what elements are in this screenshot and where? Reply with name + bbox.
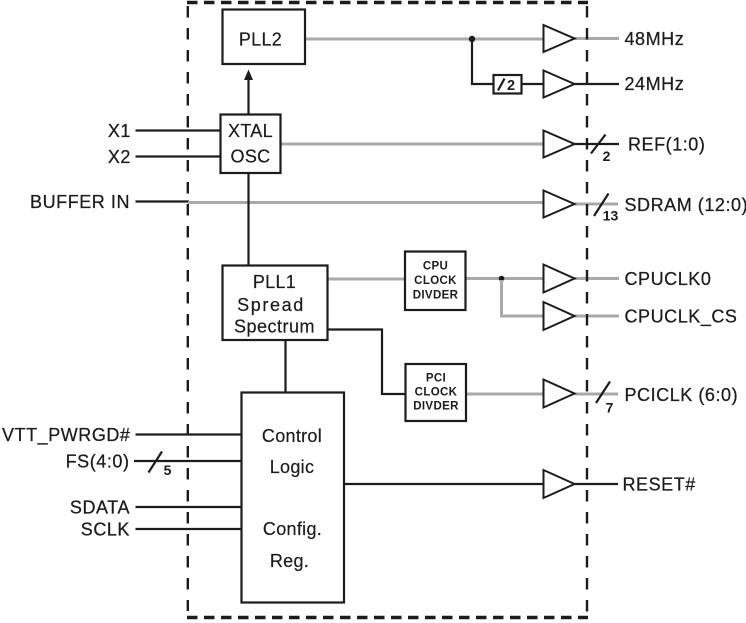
svg-text:Spectrum: Spectrum xyxy=(234,317,315,337)
svg-text:REF(1:0): REF(1:0) xyxy=(628,135,705,155)
slash bus width REF /2 xyxy=(591,135,611,165)
svg-text:2: 2 xyxy=(603,148,611,164)
svg-text:CLOCK: CLOCK xyxy=(414,275,457,287)
svg-text:RESET#: RESET# xyxy=(623,475,696,495)
svg-text:Control: Control xyxy=(262,426,322,446)
svg-text:X2: X2 xyxy=(108,147,131,167)
svg-text:SCLK: SCLK xyxy=(81,520,130,540)
wire X1 input xyxy=(136,129,221,131)
slash bus width FS /5 xyxy=(149,452,172,479)
wire VTT_PWRGD# input xyxy=(136,433,242,435)
wire CPU clock divider to CPUCLK0 buffer xyxy=(466,277,544,280)
buffer CPUCLK_CS xyxy=(544,302,575,330)
wire 24MHz buffer output stub xyxy=(575,83,620,85)
wire RESET# buffer output stub xyxy=(575,483,619,485)
svg-text:SDRAM (12:0): SDRAM (12:0) xyxy=(625,195,746,215)
buffer SDRAM xyxy=(544,191,575,218)
buffer 24MHz xyxy=(544,71,575,98)
wire junction down to /2 divider xyxy=(472,41,493,84)
wire CPUCLK_CS buffer output stub xyxy=(575,315,620,318)
wire 48MHz buffer output stub xyxy=(575,37,620,40)
svg-text:CPUCLK0: CPUCLK0 xyxy=(625,269,712,289)
wire PLL1 to PCI clock divider xyxy=(328,330,406,395)
wire SDATA input xyxy=(136,506,242,508)
wire FS(4:0) input xyxy=(134,460,242,462)
svg-text:Spread: Spread xyxy=(237,295,305,315)
node junction on 48MHz line xyxy=(469,36,475,42)
buffer RESET# xyxy=(544,470,575,498)
svg-text:DIVDER: DIVDER xyxy=(413,401,459,413)
wire PLL1 to CPU clock divider xyxy=(328,278,406,281)
chip boundary right dashed edge xyxy=(586,6,588,614)
wire SCLK input xyxy=(136,528,242,530)
svg-text:OSC: OSC xyxy=(231,147,271,167)
wire PCI clock divider to PCICLK buffer xyxy=(466,393,544,396)
svg-text:5: 5 xyxy=(164,462,172,478)
svg-text:PCI: PCI xyxy=(426,373,446,385)
svg-text:PCICLK (6:0): PCICLK (6:0) xyxy=(625,385,739,405)
buffer CPUCLK0 xyxy=(544,265,575,293)
block CPU CLOCK DIVDER xyxy=(405,252,466,311)
chip boundary left dashed edge xyxy=(187,6,189,611)
block XTAL OSC xyxy=(221,115,281,174)
buffer REF xyxy=(544,131,575,158)
wire X2 input xyxy=(136,155,221,157)
svg-text:XTAL: XTAL xyxy=(228,121,273,141)
wire PLL2 output to 48MHz buffer xyxy=(305,38,544,41)
svg-text:VTT_PWRGD#: VTT_PWRGD# xyxy=(2,425,131,446)
svg-text:Logic: Logic xyxy=(270,457,315,477)
chip boundary bottom dashed edge xyxy=(187,616,588,619)
svg-text:CPUCLK_CS: CPUCLK_CS xyxy=(625,307,738,328)
slash bus width PCICLK /7 xyxy=(596,382,614,416)
svg-text:PLL1: PLL1 xyxy=(253,272,296,292)
wire BUFFER IN to SDRAM buffer (inside chip) xyxy=(188,201,544,204)
block PLL1 Spread Spectrum xyxy=(223,266,328,341)
block PCI CLOCK DIVDER xyxy=(406,364,467,421)
svg-text:CPU: CPU xyxy=(423,261,448,273)
wire BUFFER IN input (outside chip) xyxy=(136,200,190,202)
wire junction down to CPUCLK_CS buffer xyxy=(502,280,544,316)
wire Control Logic to RESET# buffer xyxy=(344,483,544,485)
block /2 divider xyxy=(494,75,522,94)
wire REF buffer output stub xyxy=(575,143,620,145)
svg-text:BUFFER IN: BUFFER IN xyxy=(30,192,130,212)
wire CPUCLK0 buffer output stub xyxy=(575,277,620,280)
wire /2 divider to 24MHz buffer xyxy=(522,83,544,85)
wire XTAL OSC down to PLL1 xyxy=(247,173,249,266)
svg-text:Reg.: Reg. xyxy=(270,551,309,571)
svg-text:2: 2 xyxy=(507,78,515,94)
wire PLL1 down to Control Logic xyxy=(284,340,286,393)
node junction on CPUCLK line xyxy=(499,276,505,282)
svg-text:X1: X1 xyxy=(108,121,131,141)
wire XTAL OSC output to REF buffer xyxy=(281,143,544,146)
wire SDRAM buffer output stub xyxy=(575,203,619,206)
wire PCICLK buffer output stub xyxy=(575,393,619,396)
svg-text:PLL2: PLL2 xyxy=(239,30,282,50)
svg-text:48MHz: 48MHz xyxy=(625,29,685,49)
svg-text:SDATA: SDATA xyxy=(70,498,130,518)
svg-text:24MHz: 24MHz xyxy=(625,74,685,94)
buffer PCICLK xyxy=(544,380,575,408)
chip boundary top dashed edge xyxy=(187,1,588,4)
svg-text:13: 13 xyxy=(603,208,619,224)
svg-text:7: 7 xyxy=(606,400,614,416)
block PLL2 xyxy=(223,10,306,65)
svg-text:CLOCK: CLOCK xyxy=(415,387,458,399)
wire XTAL OSC up to PLL2 with arrowhead xyxy=(247,77,249,115)
slash bus width SDRAM /13 xyxy=(594,194,618,224)
block Control Logic / Config. Reg. xyxy=(242,393,345,603)
buffer 48MHz xyxy=(544,25,575,52)
svg-text:DIVDER: DIVDER xyxy=(413,290,459,302)
svg-text:Config.: Config. xyxy=(263,519,322,539)
svg-text:FS(4:0): FS(4:0) xyxy=(66,452,130,472)
